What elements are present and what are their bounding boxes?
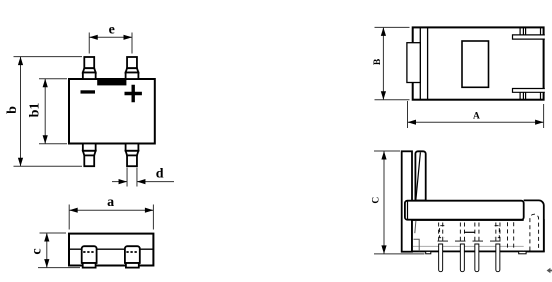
top pin marks bbox=[519, 27, 521, 35]
inner vertical line 2 bbox=[427, 27, 429, 99]
horizontal bar (body side profile) bbox=[405, 201, 524, 220]
hidden pin lines (dashed) bbox=[438, 222, 514, 250]
hidden bracket right bbox=[495, 226, 500, 238]
dimension d bbox=[112, 167, 174, 187]
right foot bbox=[519, 251, 526, 253]
hidden bracket left bbox=[440, 226, 445, 238]
center window rectangle bbox=[462, 41, 489, 87]
inner bottom line (faint) bbox=[413, 245, 543, 247]
pin bottom-left bbox=[83, 144, 96, 167]
svg-text:d: d bbox=[156, 167, 164, 182]
dimension C bbox=[372, 151, 425, 254]
body outline front view bbox=[69, 79, 155, 144]
pin 1 side view bbox=[439, 244, 443, 272]
dimension b1 bbox=[28, 79, 68, 144]
dimension c bbox=[30, 233, 81, 268]
bar inner left line bbox=[407, 201, 409, 220]
pin bottom-right bbox=[126, 144, 139, 167]
inner vertical line 1 bbox=[419, 27, 421, 99]
left end strip bbox=[402, 151, 412, 251]
hidden verticals right bbox=[507, 222, 509, 250]
pin top-right bbox=[126, 57, 139, 79]
dimension e bbox=[89, 23, 132, 54]
bottom slot bbox=[513, 89, 545, 93]
top slot bbox=[513, 35, 545, 39]
left tab bbox=[407, 43, 420, 83]
pin top-left bbox=[83, 57, 96, 79]
svg-text:C: C bbox=[372, 197, 382, 204]
hidden dome in right block bbox=[530, 214, 539, 250]
fin taper line bbox=[416, 152, 421, 199]
svg-text:b1: b1 bbox=[28, 103, 43, 118]
svg-text:c: c bbox=[30, 248, 45, 254]
fin with taper bbox=[415, 151, 425, 200]
svg-text:B: B bbox=[373, 58, 383, 65]
right end block bbox=[524, 200, 544, 251]
svg-text:e: e bbox=[109, 23, 115, 38]
hidden step lower-left corner bbox=[414, 239, 420, 251]
pin 3 side view bbox=[475, 244, 479, 272]
left foot bbox=[426, 251, 431, 253]
dimension A bbox=[408, 101, 544, 128]
pin 4 side view bbox=[496, 244, 500, 272]
hidden bridge center solid bbox=[464, 231, 474, 233]
step line bbox=[69, 248, 153, 250]
svg-text:b: b bbox=[5, 106, 20, 114]
page scroll arrow (bottom right) bbox=[547, 268, 552, 273]
polarity mark black bar bbox=[97, 78, 126, 85]
svg-text:A: A bbox=[473, 112, 480, 122]
dimension a bbox=[69, 195, 153, 229]
body outline bottom view bbox=[69, 234, 153, 266]
fin hidden taper below bar bbox=[415, 221, 416, 234]
bottom pin marks bbox=[519, 92, 521, 99]
lower body bbox=[412, 220, 544, 251]
minus symbol bbox=[81, 90, 96, 93]
plus symbol bbox=[125, 85, 142, 102]
pin 2 side view bbox=[460, 244, 464, 272]
hidden horizontal long dashed bbox=[438, 240, 506, 242]
pin right (bottom view) bbox=[125, 246, 140, 267]
dimension B bbox=[373, 27, 410, 99]
dimension b bbox=[5, 57, 82, 167]
body outline top view bbox=[413, 27, 544, 99]
svg-text:a: a bbox=[107, 195, 114, 210]
pin left (bottom view) bbox=[82, 246, 97, 267]
